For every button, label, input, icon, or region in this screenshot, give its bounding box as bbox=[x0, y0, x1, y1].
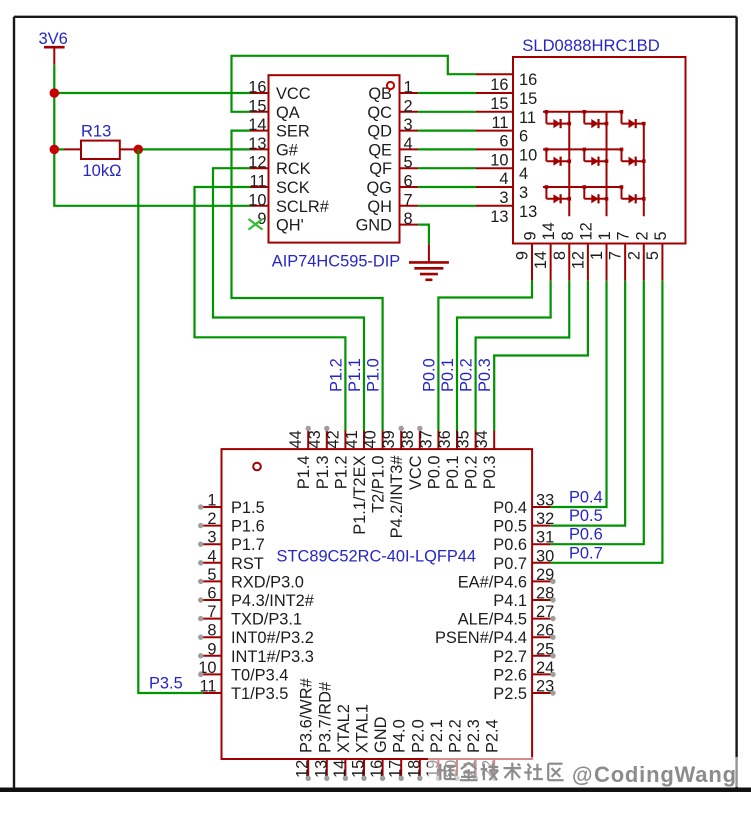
svg-text:4: 4 bbox=[499, 170, 508, 188]
svg-text:14: 14 bbox=[331, 760, 349, 778]
U2 pin 4 RST bbox=[198, 547, 264, 573]
U2 pin 6 P4.3/INT2# bbox=[198, 585, 315, 611]
svg-text:10: 10 bbox=[519, 146, 537, 164]
svg-text:P0.5: P0.5 bbox=[569, 507, 603, 525]
wire U1 QE to DS 10 bbox=[418, 148, 476, 150]
net label P3.5 bbox=[149, 675, 183, 693]
svg-text:T1/P3.5: T1/P3.5 bbox=[231, 685, 288, 703]
U2 pin 23 P2.5 bbox=[493, 678, 555, 704]
svg-text:15: 15 bbox=[248, 97, 266, 115]
svg-text:INT1#/P3.3: INT1#/P3.3 bbox=[231, 648, 314, 666]
svg-text:1: 1 bbox=[596, 231, 614, 240]
svg-text:P0.1: P0.1 bbox=[439, 358, 457, 392]
U2 pin 12 P3.6/WR# bbox=[294, 677, 316, 781]
svg-text:14: 14 bbox=[532, 251, 550, 269]
wire R13 to U1 G# bbox=[138, 148, 250, 150]
net label P0.1 bbox=[439, 358, 457, 392]
U2 pin 40 T2/P1.0 bbox=[362, 430, 388, 513]
svg-text:8: 8 bbox=[404, 210, 413, 228]
U2 pin 36 P0.1 bbox=[436, 430, 462, 489]
wire 3V6 vertical to SCLR# bbox=[54, 65, 250, 206]
svg-text:2: 2 bbox=[404, 97, 413, 115]
diode D31 bbox=[545, 185, 571, 203]
wire 3V6 to U1 VCC bbox=[54, 92, 250, 94]
svg-text:11: 11 bbox=[491, 114, 508, 132]
diode D13 bbox=[620, 110, 646, 128]
DS1 pin 6 (left) bbox=[476, 128, 528, 151]
U1 pin 11 SCK bbox=[249, 173, 309, 198]
U1 pin 6 QG bbox=[367, 173, 419, 198]
svg-text:VCC: VCC bbox=[407, 455, 425, 490]
svg-text:GND: GND bbox=[356, 217, 393, 235]
svg-text:P0.0: P0.0 bbox=[420, 358, 438, 392]
diode D32 bbox=[583, 185, 609, 203]
svg-text:4: 4 bbox=[404, 135, 413, 153]
svg-text:P1.6: P1.6 bbox=[231, 518, 265, 536]
svg-text:P2.6: P2.6 bbox=[493, 666, 527, 684]
U2 pin 24 P2.6 bbox=[493, 659, 555, 685]
net label P1.0 bbox=[365, 358, 383, 392]
junction 3V6/VCC bbox=[50, 88, 60, 98]
U2 pin 14 XTAL2 bbox=[331, 704, 353, 781]
svg-text:9: 9 bbox=[514, 251, 532, 260]
svg-text:1: 1 bbox=[588, 251, 606, 260]
diode D11 bbox=[545, 110, 571, 128]
svg-text:6: 6 bbox=[207, 585, 216, 603]
svg-text:12: 12 bbox=[569, 251, 587, 269]
svg-text:43: 43 bbox=[306, 430, 324, 448]
svg-text:5: 5 bbox=[404, 154, 413, 172]
svg-text:XTAL2: XTAL2 bbox=[335, 704, 353, 753]
diode D23 bbox=[620, 148, 646, 166]
U2 pin 41 P1.1/T2EX bbox=[343, 430, 369, 535]
svg-text:7: 7 bbox=[607, 251, 625, 260]
wire 3V6 to R13 left bbox=[54, 148, 64, 150]
svg-text:5: 5 bbox=[207, 566, 216, 584]
svg-text:QF: QF bbox=[369, 160, 392, 178]
U2 pin-1 marker bbox=[253, 463, 261, 471]
U2 pin 34 P0.3 bbox=[473, 430, 499, 489]
U2 pin 27 ALE/P4.5 bbox=[458, 603, 556, 629]
svg-text:QA: QA bbox=[276, 104, 300, 122]
svg-text:36: 36 bbox=[436, 430, 454, 448]
U2 pin 32 P0.5 bbox=[493, 510, 554, 536]
svg-text:P1.7: P1.7 bbox=[231, 536, 265, 554]
DS1 pin 1 (bottom) bbox=[588, 231, 614, 280]
svg-text:@: @ bbox=[572, 764, 592, 787]
svg-text:4: 4 bbox=[519, 165, 528, 183]
svg-text:11: 11 bbox=[249, 173, 266, 191]
svg-text:R13: R13 bbox=[81, 123, 111, 141]
svg-text:INT0#/P3.2: INT0#/P3.2 bbox=[231, 629, 314, 647]
svg-text:34: 34 bbox=[473, 430, 491, 448]
net label P0.7 bbox=[569, 544, 603, 562]
wire U1 GND to ground bbox=[418, 225, 429, 245]
svg-text:SCLR#: SCLR# bbox=[276, 198, 330, 216]
svg-text:7: 7 bbox=[404, 191, 413, 209]
svg-text:ALE/P4.5: ALE/P4.5 bbox=[458, 611, 527, 629]
svg-text:40: 40 bbox=[362, 430, 380, 448]
svg-text:2: 2 bbox=[625, 251, 643, 260]
svg-text:3: 3 bbox=[207, 529, 216, 547]
svg-text:12: 12 bbox=[294, 760, 312, 778]
svg-text:STC89C52RC-40I-LQFP44: STC89C52RC-40I-LQFP44 bbox=[277, 548, 477, 566]
svg-text:P1.3: P1.3 bbox=[314, 456, 332, 490]
wire net P0.5 (DS1 7 to U2 pin 32) bbox=[551, 281, 625, 526]
svg-text:6: 6 bbox=[499, 133, 508, 151]
svg-text:P0.0: P0.0 bbox=[425, 456, 443, 490]
net label P1.2 bbox=[327, 358, 345, 392]
diode D21 bbox=[545, 148, 571, 166]
U2 pin 21 P2.3 bbox=[461, 719, 483, 781]
svg-text:RST: RST bbox=[231, 555, 264, 573]
U1 pin 8 GND bbox=[356, 210, 419, 235]
U1 pin 1 QB bbox=[368, 79, 418, 104]
U2 pin 31 P0.6 bbox=[493, 529, 554, 555]
svg-text:P2.3: P2.3 bbox=[465, 719, 483, 753]
svg-text:QH: QH bbox=[367, 198, 392, 216]
svg-text:14: 14 bbox=[540, 222, 558, 240]
DS1 pin 14 (bottom) bbox=[532, 222, 558, 280]
svg-text:P0.4: P0.4 bbox=[569, 489, 603, 507]
junction 3V6/R13 bbox=[50, 145, 60, 155]
U1 pin 16 VCC bbox=[248, 79, 311, 104]
U1 pin 10 SCLR# bbox=[248, 191, 329, 216]
DS1 pin 15 (left) bbox=[476, 90, 537, 113]
wire U1 QB to DS 15 bbox=[418, 92, 476, 94]
svg-text:P2.7: P2.7 bbox=[493, 648, 527, 666]
svg-text:16: 16 bbox=[248, 79, 266, 97]
U2 pin 11 T1/P3.5 bbox=[199, 678, 288, 704]
wire net P0.2 (DS1 8 to U2 pin 35) bbox=[476, 281, 570, 431]
wire net P0.4 (DS1 1 to U2 pin 33) bbox=[551, 281, 607, 507]
resistor R13 bbox=[64, 141, 138, 159]
U1 marker dot bbox=[387, 82, 394, 89]
net label P0.5 bbox=[569, 507, 603, 525]
svg-text:P0.2: P0.2 bbox=[463, 456, 481, 490]
row bus 3 bbox=[543, 186, 622, 188]
svg-text:16: 16 bbox=[519, 71, 537, 89]
DS1 pin 12 (bottom) bbox=[569, 222, 595, 280]
U2 pin 1 P1.5 bbox=[198, 492, 265, 518]
wire net P1.0 (U1 SER to U2 pin 40) bbox=[232, 131, 383, 431]
svg-text:CodingWang: CodingWang bbox=[594, 762, 737, 787]
svg-text:P0.7: P0.7 bbox=[569, 544, 603, 562]
svg-text:10: 10 bbox=[490, 151, 508, 169]
svg-text:VCC: VCC bbox=[276, 85, 311, 103]
svg-text:2: 2 bbox=[633, 231, 651, 240]
svg-text:12: 12 bbox=[577, 222, 595, 240]
svg-text:15: 15 bbox=[350, 760, 368, 778]
svg-text:P0.3: P0.3 bbox=[481, 456, 499, 490]
U1 pin 9 QH' bbox=[257, 210, 303, 235]
svg-text:P1.1/T2EX: P1.1/T2EX bbox=[351, 455, 369, 534]
U2 pin 3 P1.7 bbox=[198, 529, 265, 555]
wire net P0.3 (DS1 12 to U2 pin 34) bbox=[494, 281, 588, 431]
svg-text:8: 8 bbox=[551, 251, 569, 260]
U2 pin 39 P4.2/INT3# bbox=[380, 426, 406, 539]
svg-text:QH': QH' bbox=[276, 217, 304, 235]
U1 pin 12 RCK bbox=[248, 154, 310, 179]
svg-text:TXD/P3.1: TXD/P3.1 bbox=[231, 611, 302, 629]
svg-text:13: 13 bbox=[248, 135, 266, 153]
svg-text:7: 7 bbox=[615, 231, 633, 240]
svg-text:T2/P1.0: T2/P1.0 bbox=[370, 456, 388, 513]
svg-text:6: 6 bbox=[404, 173, 413, 191]
junction R13/P3.5 bbox=[134, 145, 144, 155]
svg-text:41: 41 bbox=[343, 430, 361, 448]
svg-text:17: 17 bbox=[387, 760, 405, 778]
svg-text:35: 35 bbox=[455, 430, 473, 448]
diode D33 bbox=[620, 185, 646, 203]
wire net P0.1 (DS1 14 to U2 pin 36) bbox=[457, 281, 551, 431]
row bus 10 bbox=[543, 148, 622, 150]
U2 pin 25 P2.7 bbox=[493, 640, 555, 666]
svg-text:3: 3 bbox=[499, 189, 508, 207]
wire net P3.5 to MCU pin 11 bbox=[138, 149, 203, 693]
matrix column 1 bbox=[568, 112, 570, 217]
svg-text:P4.3/INT2#: P4.3/INT2# bbox=[231, 592, 315, 610]
U2 pin 19 P2.1 bbox=[424, 719, 446, 781]
svg-text:13: 13 bbox=[490, 208, 508, 226]
net label P0.6 bbox=[569, 526, 603, 544]
matrix column 2 bbox=[606, 112, 608, 217]
U2 pin 8 INT0#/P3.2 bbox=[198, 622, 314, 648]
DS1 pin 4 (left) bbox=[476, 165, 528, 188]
svg-text:P3.7/RD#: P3.7/RD# bbox=[316, 681, 334, 753]
wire net P0.0 (DS1 9 to U2 pin 37) bbox=[438, 281, 532, 431]
svg-text:10: 10 bbox=[248, 191, 266, 209]
svg-text:P1.2: P1.2 bbox=[327, 358, 345, 392]
svg-text:39: 39 bbox=[380, 430, 398, 448]
svg-text:37: 37 bbox=[417, 430, 435, 448]
svg-text:QG: QG bbox=[367, 179, 393, 197]
svg-text:P3.6/WR#: P3.6/WR# bbox=[298, 677, 316, 753]
svg-text:38: 38 bbox=[399, 430, 417, 448]
svg-text:SLD0888HRC1BD: SLD0888HRC1BD bbox=[522, 36, 659, 55]
diode D12 bbox=[583, 110, 609, 128]
microcontroller U2 STC89C52RC-40I-LQFP44 body bbox=[222, 449, 533, 759]
U2 pin 28 P4.1 bbox=[493, 585, 555, 611]
svg-text:3: 3 bbox=[404, 116, 413, 134]
U1 pin 5 QF bbox=[369, 154, 418, 179]
svg-text:2: 2 bbox=[207, 510, 216, 528]
svg-text:RXD/P3.0: RXD/P3.0 bbox=[231, 573, 304, 591]
svg-text:P1.4: P1.4 bbox=[295, 456, 313, 490]
svg-text:P0.7: P0.7 bbox=[493, 555, 527, 573]
svg-text:P1.2: P1.2 bbox=[332, 456, 350, 490]
svg-text:QE: QE bbox=[368, 141, 392, 159]
svg-text:EA#/P4.6: EA#/P4.6 bbox=[458, 573, 527, 591]
svg-text:16: 16 bbox=[490, 76, 508, 94]
U2 pin 18 P2.0 bbox=[405, 719, 427, 781]
U2 pin 5 RXD/P3.0 bbox=[198, 566, 304, 592]
shift register U1 AIP74HC595-DIP body bbox=[269, 75, 400, 242]
power rail 3V6 bbox=[39, 30, 68, 65]
ground bbox=[409, 244, 449, 279]
svg-text:9: 9 bbox=[207, 640, 216, 658]
watermark bbox=[428, 757, 751, 787]
svg-text:P0.2: P0.2 bbox=[458, 358, 476, 392]
svg-text:XTAL1: XTAL1 bbox=[354, 704, 372, 753]
net label P1.1 bbox=[346, 358, 364, 392]
svg-text:P2.1: P2.1 bbox=[428, 719, 446, 753]
U2 pin 44 P1.4 bbox=[287, 426, 313, 490]
svg-text:10kΩ: 10kΩ bbox=[83, 162, 122, 180]
diode D22 bbox=[583, 148, 609, 166]
svg-text:1: 1 bbox=[207, 492, 216, 510]
svg-text:13: 13 bbox=[519, 203, 537, 221]
svg-text:8: 8 bbox=[207, 622, 216, 640]
svg-text:7: 7 bbox=[207, 603, 216, 621]
U2 pin 33 P0.4 bbox=[493, 492, 554, 518]
svg-text:3V6: 3V6 bbox=[39, 30, 68, 48]
svg-text:P1.5: P1.5 bbox=[231, 499, 265, 517]
svg-text:18: 18 bbox=[405, 760, 423, 778]
svg-text:P4.1: P4.1 bbox=[493, 592, 527, 610]
U2 pin 35 P0.2 bbox=[455, 430, 481, 489]
svg-text:QC: QC bbox=[367, 104, 392, 122]
svg-text:12: 12 bbox=[248, 154, 266, 172]
label 10kOhm bbox=[83, 162, 122, 180]
svg-text:P2.2: P2.2 bbox=[447, 719, 465, 753]
U2 pin 22 P2.4 bbox=[480, 719, 502, 781]
wire U1 QH to DS 13 bbox=[418, 205, 476, 207]
svg-text:42: 42 bbox=[324, 430, 342, 448]
DS1 pin 2 (bottom) bbox=[625, 231, 651, 280]
wire net P0.7 (DS1 5 to U2 pin 30) bbox=[551, 281, 663, 563]
wire net P1.2 (U1 SCK to U2 pin 42) bbox=[195, 187, 346, 431]
svg-text:3: 3 bbox=[519, 184, 528, 202]
DS1 pin 10 (left) bbox=[476, 146, 537, 169]
svg-text:GND: GND bbox=[372, 716, 390, 753]
U2 pin 42 P1.2 bbox=[324, 430, 350, 489]
U2 pin 13 P3.7/RD# bbox=[312, 681, 334, 781]
svg-text:P2.5: P2.5 bbox=[493, 685, 527, 703]
DS1 pin 13 (left) bbox=[476, 203, 537, 226]
svg-text:6: 6 bbox=[519, 128, 528, 146]
wire U1 QF to DS 4 bbox=[418, 167, 476, 169]
DS1 pin 8 (bottom) bbox=[551, 231, 577, 280]
svg-text:5: 5 bbox=[652, 231, 670, 240]
U1 pin 7 QH bbox=[367, 191, 418, 216]
U2 pin 20 P2.2 bbox=[443, 719, 465, 781]
DS1 pin 16 (left) bbox=[476, 71, 537, 94]
matrix column 3 bbox=[643, 124, 645, 217]
DS1 pin 11 (left) bbox=[476, 109, 536, 132]
U2 pin 15 XTAL1 bbox=[350, 704, 372, 781]
svg-text:P4.0: P4.0 bbox=[391, 719, 409, 753]
svg-text:14: 14 bbox=[248, 116, 266, 134]
wire net P1.1 (U1 RCK to U2 pin 41) bbox=[213, 168, 364, 430]
label STC89C52RC-40I-LQFP44 bbox=[277, 548, 477, 566]
U2 pin 2 P1.6 bbox=[198, 510, 265, 536]
svg-text:P0.6: P0.6 bbox=[569, 526, 603, 544]
wire U1 QD to DS 6 bbox=[418, 130, 476, 132]
svg-text:P0.3: P0.3 bbox=[476, 358, 494, 392]
LED matrix DS1 SLD0888HRC1BD body bbox=[513, 57, 686, 244]
svg-text:AIP74HC595-DIP: AIP74HC595-DIP bbox=[272, 253, 401, 271]
svg-text:P0.1: P0.1 bbox=[444, 456, 462, 490]
svg-text:P4.2/INT3#: P4.2/INT3# bbox=[388, 455, 406, 539]
net label P0.0 bbox=[420, 358, 438, 392]
U2 pin 30 P0.7 bbox=[493, 547, 554, 573]
net label P0.4 bbox=[569, 489, 603, 507]
svg-text:SER: SER bbox=[276, 123, 310, 141]
wire net P0.6 (DS1 2 to U2 pin 31) bbox=[551, 281, 644, 545]
svg-text:15: 15 bbox=[490, 95, 508, 113]
svg-text:8: 8 bbox=[559, 231, 577, 240]
U2 pin 43 P1.3 bbox=[306, 426, 332, 490]
U1 pin 4 QE bbox=[368, 135, 418, 160]
label AIP74HC595-DIP bbox=[272, 253, 401, 271]
svg-text:P2.0: P2.0 bbox=[409, 719, 427, 753]
svg-text:P0.6: P0.6 bbox=[493, 536, 527, 554]
U2 pin 29 EA#/P4.6 bbox=[458, 566, 556, 592]
svg-text:1: 1 bbox=[404, 79, 413, 97]
U1 pin 14 SER bbox=[248, 116, 310, 141]
svg-text:9: 9 bbox=[522, 231, 540, 240]
wire U1 QA to DS 16 bbox=[232, 56, 477, 112]
U1 pin 15 QA bbox=[248, 97, 299, 122]
label R13 bbox=[81, 123, 111, 141]
svg-text:P1.0: P1.0 bbox=[365, 358, 383, 392]
svg-text:RCK: RCK bbox=[276, 160, 311, 178]
no-connect X on U1 pin 9 QH' bbox=[249, 219, 263, 230]
svg-text:11: 11 bbox=[519, 109, 536, 127]
U1 pin 13 G# bbox=[248, 135, 298, 160]
svg-text:13: 13 bbox=[312, 760, 330, 778]
DS1 pin 5 (bottom) bbox=[644, 231, 670, 280]
U2 pin 37 P0.0 bbox=[417, 430, 443, 489]
wire U1 QG to DS 3 bbox=[418, 186, 476, 188]
svg-text:P3.5: P3.5 bbox=[149, 675, 183, 693]
svg-text:P0.4: P0.4 bbox=[493, 499, 527, 517]
svg-text:P0.5: P0.5 bbox=[493, 518, 527, 536]
row bus 11 bbox=[543, 111, 622, 113]
U2 pin 7 TXD/P3.1 bbox=[198, 603, 302, 629]
U1 pin 2 QC bbox=[367, 97, 418, 122]
net label P0.2 bbox=[458, 358, 476, 392]
svg-text:5: 5 bbox=[644, 251, 662, 260]
svg-text:SCK: SCK bbox=[276, 179, 310, 197]
U2 pin 16 GND bbox=[368, 716, 390, 781]
label SLD0888HRC1BD bbox=[522, 36, 659, 55]
U2 pin 26 PSEN#/P4.4 bbox=[435, 622, 556, 648]
U2 pin 38 VCC bbox=[399, 426, 425, 490]
svg-text:16: 16 bbox=[368, 760, 386, 778]
svg-text:15: 15 bbox=[519, 90, 537, 108]
net label P0.3 bbox=[476, 358, 494, 392]
svg-text:11: 11 bbox=[199, 678, 216, 696]
svg-text:P1.1: P1.1 bbox=[346, 358, 364, 392]
svg-text:T0/P3.4: T0/P3.4 bbox=[231, 666, 288, 684]
wire U1 QC to DS 11 bbox=[418, 111, 476, 113]
U2 pin 9 INT1#/P3.3 bbox=[198, 640, 314, 666]
svg-text:P2.4: P2.4 bbox=[484, 719, 502, 753]
DS1 pin 3 (left) bbox=[476, 184, 528, 207]
svg-text:G#: G# bbox=[276, 141, 299, 159]
svg-text:44: 44 bbox=[287, 430, 305, 448]
U2 pin 10 T0/P3.4 bbox=[198, 659, 288, 685]
DS1 pin 7 (bottom) bbox=[607, 231, 633, 280]
svg-text:4: 4 bbox=[207, 547, 216, 565]
svg-text:PSEN#/P4.4: PSEN#/P4.4 bbox=[435, 629, 527, 647]
svg-text:QD: QD bbox=[367, 123, 392, 141]
U1 pin 3 QD bbox=[367, 116, 418, 141]
U2 pin 17 P4.0 bbox=[387, 719, 409, 781]
DS1 pin 9 (bottom) bbox=[514, 231, 540, 280]
